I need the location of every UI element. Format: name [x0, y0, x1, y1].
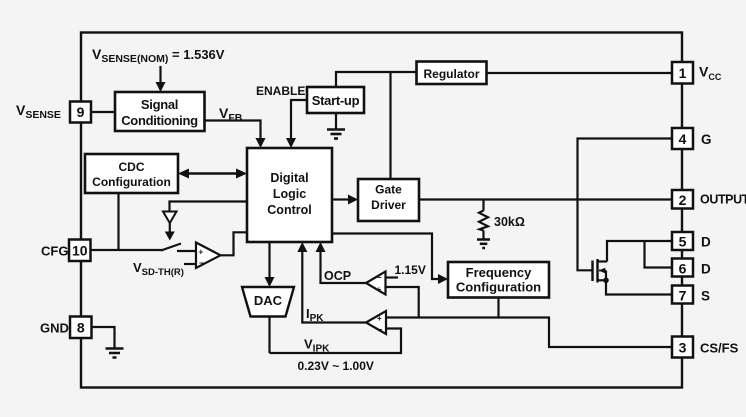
- wire: GND pin to ground: [92, 327, 115, 348]
- pin 3: [672, 337, 693, 358]
- svg-text:Control: Control: [267, 203, 311, 217]
- svg-text:DAC: DAC: [254, 293, 283, 308]
- pin 7: [672, 286, 693, 304]
- svg-text:+: +: [377, 285, 382, 294]
- svg-text:1: 1: [679, 65, 687, 81]
- wire: IPK comparator output to DLC: [302, 252, 366, 323]
- ground below 30k resistor: [477, 240, 490, 249]
- svg-text:Frequency: Frequency: [466, 265, 533, 280]
- mosfet Q1: [593, 259, 608, 283]
- svg-text:D: D: [701, 262, 711, 277]
- wire: CFG pin to switch: [90, 249, 163, 251]
- svg-text:Configuration: Configuration: [92, 175, 171, 189]
- wire: start-up top to regulator feed: [336, 72, 417, 88]
- junction dot at mosfet source: [603, 278, 609, 284]
- pin 2: [672, 190, 693, 209]
- block: Start-up: [307, 87, 364, 113]
- wire: regulator to pin 1 VCC: [487, 72, 673, 74]
- comparator IPK: [366, 311, 386, 334]
- svg-text:7: 7: [679, 288, 687, 304]
- svg-text:3: 3: [679, 340, 687, 356]
- block: DAC: [242, 287, 294, 317]
- svg-text:−: −: [377, 273, 382, 282]
- svg-text:Driver: Driver: [371, 198, 406, 212]
- svg-text:CFG: CFG: [41, 244, 68, 259]
- pin 9: [70, 102, 91, 123]
- svg-text:+: +: [377, 314, 382, 323]
- wire: mosfet drain to pin 5: [607, 241, 672, 262]
- wire: pin 5 to pin 6 jumper: [645, 241, 673, 268]
- wire: switch to comparator: [177, 250, 196, 252]
- svg-text:8: 8: [77, 320, 85, 336]
- pin 5: [672, 232, 693, 250]
- wire: vcc feed down to gate driver: [389, 72, 391, 179]
- svg-text:OUTPUT: OUTPUT: [700, 193, 746, 207]
- wire: pin 9 to signal conditioning: [90, 111, 115, 113]
- stub: VSD-TH reference input: [184, 263, 196, 265]
- svg-text:Regulator: Regulator: [423, 67, 479, 81]
- svg-text:4: 4: [679, 131, 687, 147]
- svg-text:9: 9: [77, 104, 85, 120]
- wire: OCP comparator output to DLC: [321, 252, 367, 283]
- wire: DAC output down: [268, 317, 270, 354]
- pin 4: [672, 128, 693, 149]
- stub: 1.15V reference into OCP comparator: [386, 276, 399, 278]
- wire: IPK - input from DAC: [270, 329, 402, 354]
- ground below start-up: [327, 113, 345, 139]
- outer IC boundary box: [81, 33, 682, 388]
- wire: OCP + input from CS net: [386, 287, 419, 318]
- svg-text:1.15V: 1.15V: [395, 263, 426, 277]
- svg-text:G: G: [701, 132, 712, 147]
- svg-text:CDC: CDC: [119, 160, 145, 174]
- svg-text:Configuration: Configuration: [456, 280, 541, 295]
- wire: comparator output to DLC: [221, 232, 248, 255]
- svg-text:30kΩ: 30kΩ: [494, 215, 525, 229]
- svg-text:−: −: [199, 258, 204, 268]
- wire: pin 4 G to mosfet gate: [578, 139, 673, 271]
- wire: VSENSE(NOM) arrow into signal conditioning: [159, 66, 161, 82]
- svg-text:+: +: [199, 248, 204, 257]
- comparator VSD-TH: [196, 243, 221, 269]
- wire: CDC to DLC bidirectional arrow: [186, 172, 239, 174]
- svg-text:10: 10: [72, 243, 88, 259]
- svg-text:Gate: Gate: [375, 183, 402, 197]
- svg-text:0.23V ~ 1.00V: 0.23V ~ 1.00V: [298, 359, 374, 373]
- wire: DLC to switch driver: [170, 202, 248, 212]
- svg-text:Logic: Logic: [273, 187, 306, 201]
- svg-text:6: 6: [679, 261, 687, 277]
- svg-text:ENABLE: ENABLE: [256, 84, 305, 98]
- svg-text:Signal: Signal: [141, 97, 178, 112]
- buffer triangle driving switch: [163, 212, 177, 224]
- switch arm: [161, 244, 181, 251]
- pin 8: [70, 317, 92, 339]
- resistor 30k pulldown: [479, 200, 488, 240]
- wire: DLC to DAC arrow: [268, 242, 270, 277]
- wire: mosfet source to pin 7: [606, 280, 672, 294]
- wire: VFB from signal conditioning to DLC: [205, 121, 261, 139]
- svg-text:GND: GND: [40, 321, 69, 336]
- svg-text:OCP: OCP: [324, 269, 351, 283]
- svg-text:2: 2: [679, 192, 687, 208]
- wire: DLC to frequency configuration: [332, 234, 438, 280]
- wire: gate driver output to pin 2 OUTPUT: [419, 198, 672, 200]
- wire: CDC bottom to CFG net: [117, 193, 119, 250]
- block: CDC Configuration: [85, 154, 178, 193]
- block: Signal Conditioning: [115, 92, 205, 131]
- svg-text:5: 5: [679, 234, 687, 250]
- wire: CS/FS net to comparators and pin 3: [386, 318, 672, 348]
- pin 6: [672, 259, 693, 277]
- block: Regulator: [417, 62, 487, 85]
- wire: ENABLE from start-up to DLC: [291, 100, 307, 138]
- mosfet body arrow: [599, 268, 606, 274]
- pin 1: [672, 62, 693, 84]
- block: Frequency Configuration: [448, 262, 549, 298]
- svg-text:D: D: [701, 235, 711, 250]
- svg-text:S: S: [701, 289, 710, 304]
- svg-text:Start-up: Start-up: [312, 93, 360, 108]
- wire: buffer to switch arrow: [169, 223, 171, 232]
- svg-text:Digital: Digital: [270, 171, 308, 185]
- pin 10: [69, 240, 91, 262]
- comparator OCP: [366, 272, 386, 295]
- wire: DLC to gate driver arrow: [332, 198, 348, 200]
- ground at GND pin: [106, 349, 124, 358]
- block: Gate Driver: [358, 179, 419, 221]
- wire: frequency configuration to CS/FS net: [497, 298, 499, 318]
- block: Digital Logic Control: [247, 148, 332, 242]
- svg-text:CS/FS: CS/FS: [700, 341, 739, 356]
- svg-text:Conditioning: Conditioning: [121, 113, 198, 128]
- svg-text:−: −: [378, 325, 383, 334]
